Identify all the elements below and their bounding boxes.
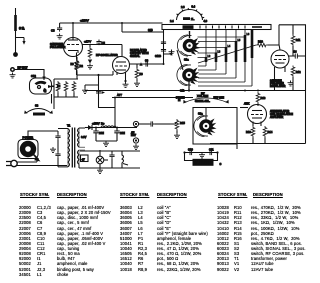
- svg-text:ATT: ATT: [117, 93, 122, 97]
- table headers: [20, 192, 49, 197]
- svg-text:MODULATOR: MODULATOR: [270, 85, 286, 88]
- RF coarse arc: [24, 104, 53, 116]
- svg-text:R13: R13: [261, 96, 266, 100]
- svg-text:R16: R16: [246, 130, 251, 134]
- rotary switch S1b: [177, 64, 200, 85]
- capacitor C5: [96, 40, 101, 46]
- choke L1 + filter caps: [93, 126, 137, 146]
- svg-text:C5: C5: [102, 41, 106, 45]
- capacitor C4: [96, 91, 101, 93]
- svg-text:FOLLOWER: FOLLOWER: [50, 45, 65, 49]
- pilot lamp I1: [96, 150, 108, 173]
- label modulation attenuator: [193, 159, 214, 166]
- svg-text:L6: L6: [247, 33, 250, 36]
- power switch: [18, 131, 58, 162]
- svg-text:2.4: 2.4: [170, 19, 174, 23]
- bottom wire right: [210, 91, 306, 144]
- wire osc cathode down: [99, 86, 116, 108]
- node AF INT terminal: [133, 138, 138, 143]
- resistor ladder left: [51, 57, 79, 109]
- svg-text:3.4: 3.4: [192, 6, 196, 9]
- svg-text:SIGNAL SEL.: SIGNAL SEL.: [195, 100, 210, 103]
- capacitor C3a: [93, 128, 98, 142]
- table col2: [120, 205, 132, 272]
- svg-text:IN: IN: [178, 99, 181, 102]
- table col1: [19, 205, 31, 277]
- resistor R12: [291, 66, 295, 78]
- svg-text:R10: R10: [258, 40, 263, 44]
- capacitor C13: [161, 40, 166, 46]
- svg-text:C12B: C12B: [155, 55, 161, 58]
- svg-text:EXT: EXT: [131, 134, 136, 137]
- resistor R11: [291, 35, 295, 47]
- wire plate to osc: [83, 44, 123, 46]
- resistor R1: [88, 47, 92, 59]
- tube V1b: [271, 50, 289, 91]
- svg-text:L4: L4: [228, 45, 231, 48]
- wire left of switch: [163, 30, 165, 65]
- pot R15: [170, 119, 185, 138]
- wire B+ top: [60, 23, 122, 27]
- coil L4: [225, 47, 228, 62]
- svg-text:R3: R3: [71, 63, 75, 66]
- svg-text:R14: R14: [268, 130, 273, 134]
- svg-text:C2B: C2B: [148, 29, 153, 32]
- left mid wires: [77, 71, 114, 75]
- svg-text:XTAL GEN: XTAL GEN: [197, 95, 208, 98]
- node RF EXT terminal: [10, 67, 15, 72]
- svg-text:+17V: +17V: [84, 40, 91, 44]
- svg-text:C8: C8: [51, 29, 55, 33]
- bulb 47 box: [81, 155, 89, 162]
- capacitor C8: [51, 26, 63, 39]
- svg-text:+150V: +150V: [80, 19, 89, 23]
- node AF EXT terminal: [133, 121, 138, 126]
- tube V1a: [64, 23, 83, 75]
- coil bank L2-L6: [198, 30, 257, 87]
- svg-text:AUX: AUX: [244, 102, 250, 106]
- svg-text:R2: R2: [80, 64, 84, 68]
- svg-text:14: 14: [294, 50, 297, 54]
- coil L6: [244, 35, 247, 62]
- antenna J2: [16, 8, 26, 53]
- svg-text:S2a: S2a: [198, 112, 203, 116]
- svg-text:ATTENUATOR: ATTENUATOR: [194, 163, 211, 166]
- B+ long wire: [85, 90, 306, 92]
- coil L7: [251, 30, 254, 58]
- wire strip drops: [206, 30, 252, 58]
- svg-text:R12: R12: [296, 70, 301, 74]
- svg-text:6 ft.: 6 ft.: [19, 27, 25, 31]
- S2 box: [193, 108, 237, 145]
- wire U below caps: [185, 153, 218, 161]
- resistor R13: [256, 92, 260, 104]
- wire mid box: [112, 97, 193, 99]
- svg-text:4.0: 4.0: [204, 19, 208, 23]
- svg-text:RF EXT: RF EXT: [18, 66, 28, 70]
- svg-text:L3: L3: [218, 51, 221, 54]
- resistor R10: [256, 40, 279, 47]
- coil L5: [235, 41, 238, 62]
- wire cap bottoms: [96, 140, 117, 142]
- capacitor C6: [144, 61, 150, 66]
- svg-text:C10: C10: [188, 148, 193, 152]
- capacitor C3b: [114, 128, 119, 142]
- right box: [279, 25, 306, 91]
- caps C10 C11 bottom: [185, 152, 218, 154]
- svg-text:C12: C12: [31, 74, 36, 78]
- svg-text:AMPLIFIER: AMPLIFIER: [270, 116, 283, 119]
- svg-text:R11: R11: [296, 38, 301, 42]
- power plug: [6, 158, 67, 167]
- coil L2: [205, 57, 208, 62]
- svg-text:R8: R8: [140, 73, 144, 76]
- svg-text:S3: S3: [35, 104, 39, 108]
- tube V2a RF oscillator: [113, 57, 130, 88]
- resistor R14: [263, 126, 267, 138]
- node J2 terminal: [13, 52, 18, 57]
- svg-text:L2: L2: [208, 55, 211, 58]
- svg-text:SIGNAL: SIGNAL: [130, 54, 140, 58]
- svg-text:+150V: +150V: [92, 122, 100, 126]
- coil L3: [215, 53, 218, 63]
- tube V2b AF amp: [248, 105, 267, 127]
- wire stair top: [198, 37, 246, 58]
- svg-text:20M: 20M: [120, 132, 125, 135]
- svg-text:RF OSCILLATOR: RF OSCILLATOR: [96, 53, 118, 57]
- capacitor C14: [161, 48, 166, 54]
- svg-text:6.3V: 6.3V: [81, 135, 87, 139]
- capacitor C1: [155, 123, 170, 125]
- resistor R16: [251, 126, 255, 138]
- wire B+ drop: [114, 98, 116, 127]
- svg-text:L5: L5: [238, 39, 241, 42]
- svg-text:R15: R15: [180, 121, 185, 125]
- wire stair bottom: [198, 58, 252, 86]
- ground: [10, 73, 16, 78]
- wire V2a plate: [130, 63, 164, 65]
- svg-text:T1: T1: [67, 124, 71, 128]
- svg-text:20M: 20M: [99, 132, 104, 135]
- rotary switch S2a: [194, 115, 217, 136]
- svg-text:C6: C6: [145, 60, 149, 63]
- resistor R8: [136, 64, 138, 68]
- svg-text:C11: C11: [209, 148, 214, 152]
- svg-text:S1a: S1a: [184, 58, 189, 62]
- table col3: [217, 205, 229, 272]
- wire corner box: [122, 23, 164, 32]
- svg-text:2L.: 2L.: [191, 18, 195, 21]
- transformer T1: [58, 124, 140, 169]
- tuning cap C12: [30, 70, 55, 104]
- svg-text:47: 47: [82, 157, 86, 161]
- svg-text:C: C: [220, 163, 222, 166]
- wire wiper diagonal: [198, 45, 256, 63]
- svg-text:B+: B+: [101, 122, 105, 126]
- wire: [15, 70, 44, 81]
- capacitor C7: [289, 55, 306, 57]
- svg-text:2.8: 2.8: [181, 6, 185, 9]
- rectifier CR1: [85, 122, 105, 131]
- rotary switch S1a: [177, 35, 200, 56]
- caps power: [55, 134, 60, 140]
